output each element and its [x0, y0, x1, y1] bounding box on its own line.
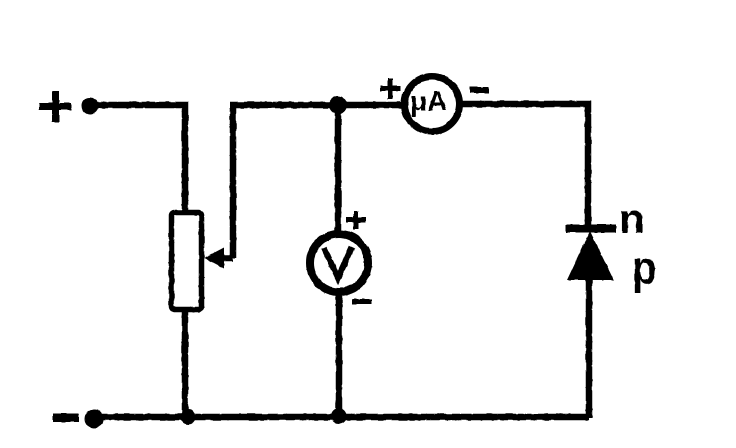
svg-text:μA: μA [410, 86, 447, 117]
svg-text:p: p [632, 243, 657, 294]
svg-text:n: n [619, 195, 645, 242]
